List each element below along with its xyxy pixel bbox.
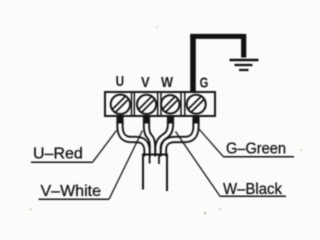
svg-text:U: U [116,73,125,90]
screw terminal G [187,95,206,114]
crimp stub V [143,115,151,124]
svg-text:V–White: V–White [41,183,102,200]
screw terminal U [111,95,130,114]
faint scan smudges [30,26,302,214]
cable sheath [143,155,167,192]
underline V-White [39,198,110,200]
svg-text:W–Black: W–Black [223,181,283,198]
svg-text:G: G [200,75,209,92]
underline U-Red [31,161,93,163]
svg-text:G–Green: G–Green [226,141,286,158]
wire V (white lead) [147,116,153,157]
ground symbol [230,60,259,70]
screw terminal W [161,95,179,113]
wire U (red lead) [120,116,147,157]
crimp stub G [192,115,200,124]
crimp stub U [116,115,124,124]
wire cores (white centers of the four leads) [120,116,196,157]
wire W (black lead) [158,116,171,157]
crimp stub W [167,115,175,124]
svg-text:U–Red: U–Red [33,146,83,163]
terminal block cell dividers [132,92,185,116]
svg-text:W: W [161,74,174,91]
leader U-Red [93,131,117,163]
wire G (green lead) [164,116,197,157]
underline W-Black [220,195,286,197]
underline G-Green [224,156,295,158]
leader G-Green [198,128,224,157]
wires inside sheath [150,155,159,164]
leader W-Black [176,132,221,197]
svg-text:V: V [141,74,150,91]
leader V-White [109,131,143,200]
terminal block outline [105,92,215,116]
screw terminal V [137,95,156,114]
ground wire (thick, from G terminal to earth) [190,34,244,93]
